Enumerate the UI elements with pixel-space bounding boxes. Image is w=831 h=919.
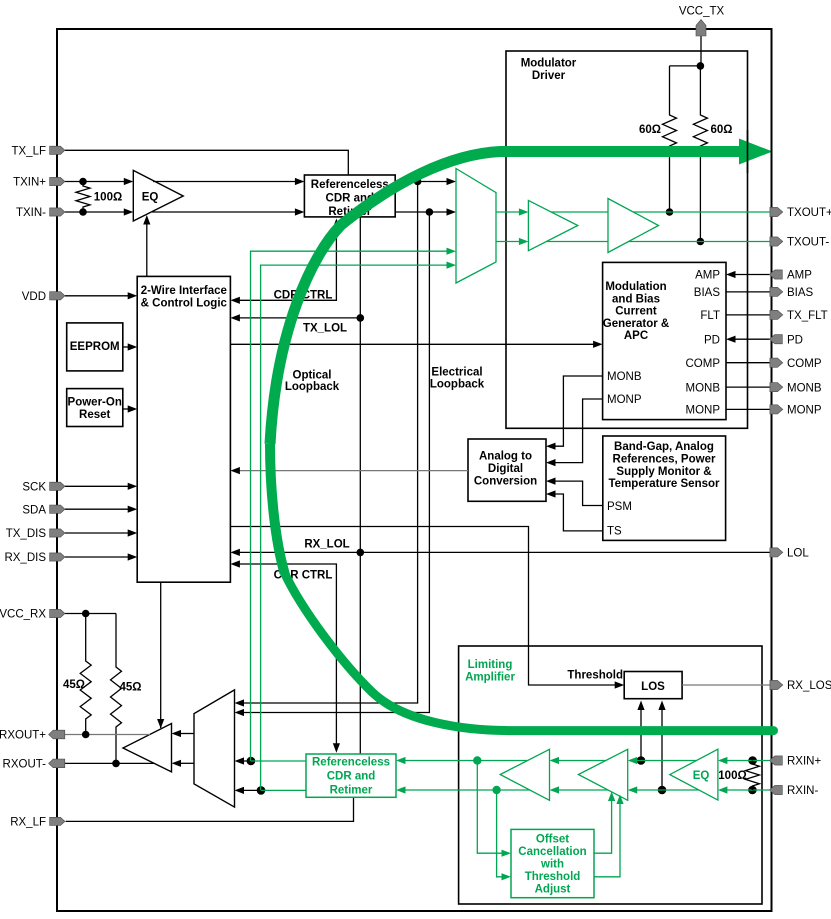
pin RXOUT- [49, 759, 65, 768]
node RX_LOL junction [357, 549, 365, 557]
node TXOUT- 60ohm join [697, 238, 705, 246]
pin TX_FLT [770, 310, 783, 319]
svg-text:Loopback: Loopback [285, 381, 340, 393]
svg-text:Digital: Digital [488, 463, 523, 475]
svg-text:Amplifier: Amplifier [465, 672, 515, 684]
wire RX_LF to RX CDR [66, 797, 354, 821]
wire Threshold from 2-wire to LOS [230, 527, 617, 686]
arrow left into 2-wire RX CDR_CTRL [230, 560, 240, 567]
svg-text:with: with [540, 859, 564, 871]
wire 60ohm branch top [670, 65, 701, 67]
arrow into RX EQ - [718, 786, 728, 793]
arrow right into 2-wire from SDA [128, 506, 138, 513]
arrow into RX amp1 + [550, 757, 560, 764]
TX driver amp 1 triangle [528, 200, 577, 250]
chip border over arrowhead [771, 130, 773, 173]
svg-text:Limiting: Limiting [468, 659, 513, 671]
svg-text:VDD: VDD [22, 291, 46, 303]
svg-text:MONP: MONP [607, 394, 642, 406]
svg-text:Cancellation: Cancellation [518, 846, 586, 858]
svg-text:Analog to: Analog to [479, 451, 532, 463]
node TXIN- termination [79, 208, 87, 216]
arrow into TX amp1 + [519, 208, 529, 215]
pin LOL [770, 548, 783, 557]
arrow into RX amp2 + [628, 757, 638, 764]
wire TX_LOL / RX_LOL vertical [359, 217, 361, 754]
pin TXIN- [50, 208, 65, 216]
pin SCK [50, 482, 65, 490]
arrow right into 2-wire from TX_DIS [128, 529, 138, 536]
wire TX mux out- [496, 241, 522, 243]
arrow left into 2-wire TX_LOL [230, 314, 240, 321]
wire COMP to pin [726, 362, 770, 364]
svg-text:Generator &: Generator & [603, 318, 669, 330]
svg-text:RX_LOS: RX_LOS [787, 680, 831, 692]
pin PD [769, 335, 782, 344]
Power-On Reset block [67, 389, 123, 427]
node RXIN+ termination [748, 756, 757, 765]
svg-text:100Ω: 100Ω [94, 192, 122, 204]
wire TX_DIS to 2-wire [65, 532, 130, 534]
wire MONP to pin [726, 408, 770, 410]
pin TX_DIS [50, 529, 65, 537]
svg-text:RX_DIS: RX_DIS [4, 552, 46, 564]
svg-text:Loopback: Loopback [430, 379, 485, 391]
svg-text:TX_DIS: TX_DIS [6, 528, 47, 540]
svg-text:AMP: AMP [695, 270, 720, 282]
wire RX CDR_CTRL [237, 564, 336, 747]
wire EQ gain control from 2-wire box [146, 222, 148, 276]
arrow into RX CDR + [396, 757, 406, 764]
wire electrical loopback - [241, 212, 429, 713]
arrow up into amp2 offset 2 [616, 795, 623, 805]
wire BIAS to pin [726, 291, 770, 293]
arrow left into RX mux from RX CDR - [235, 787, 245, 794]
pin VDD [50, 292, 65, 300]
wire optical loopback - [261, 265, 449, 790]
wire RX CDR to mux + [241, 760, 251, 762]
pin AMP [769, 270, 782, 279]
svg-text:100Ω: 100Ω [718, 770, 746, 782]
svg-text:Adjust: Adjust [535, 884, 571, 896]
pin RX_LF [50, 817, 65, 825]
svg-text:Power-On: Power-On [68, 396, 122, 408]
Modulation and Bias Current Generator and APC block [603, 262, 726, 419]
wire EQ to amp2 - [634, 789, 699, 791]
wire ADC to 2-wire [237, 470, 468, 472]
arrow into EQ from TXIN+ [124, 178, 134, 185]
wire optical loopback + [251, 251, 450, 761]
Band-Gap Analog References Power Supply Monitor and Temperature Sensor block [603, 436, 726, 540]
arrow up into amp2 offset 1 [608, 792, 615, 802]
TX driver amp 2 triangle [608, 199, 659, 253]
arrow left into 2-wire CDR_CTRL [230, 297, 240, 304]
wire TXOUT+ line [633, 211, 770, 213]
TX Referenceless CDR and Retimer block [304, 175, 395, 217]
wire TX CDR out+ to TX mux [395, 181, 449, 183]
pin RXIN- [769, 785, 782, 794]
wire 2-wire to Modulation block [230, 343, 596, 345]
arrow right into LOS Threshold [615, 681, 625, 688]
svg-text:Threshold: Threshold [567, 669, 623, 681]
arrow left into 2-wire from ADC [230, 467, 240, 474]
svg-text:and Bias: and Bias [612, 293, 660, 305]
wire MONB to pin [726, 386, 770, 388]
wire RX_LOL horizontal to LOL pin [237, 551, 770, 553]
svg-text:PD: PD [787, 334, 803, 346]
pin SDA [50, 505, 65, 513]
svg-text:2-Wire Interface: 2-Wire Interface [141, 285, 227, 297]
pin COMP [770, 358, 783, 367]
wire PSM to ADC [553, 481, 603, 505]
svg-text:45Ω: 45Ω [119, 682, 141, 694]
arrow up into EQ control [143, 215, 150, 225]
svg-text:RX_LOL: RX_LOL [304, 538, 349, 550]
node offset tap + [473, 756, 481, 764]
wire VCC_RX [65, 613, 116, 615]
arrow right into 2-wire from EEPROM [128, 343, 138, 350]
svg-text:COMP: COMP [787, 358, 822, 370]
svg-text:Offset: Offset [536, 834, 569, 846]
node TXIN+ termination [79, 178, 87, 186]
wire TX amp1 to amp2 + [551, 211, 608, 213]
wire AMP pin to Modulation block [733, 274, 770, 276]
wire TS to ADC [553, 494, 603, 531]
svg-text:Referenceless: Referenceless [312, 757, 390, 769]
node VCC_TX 60ohm split [697, 62, 705, 70]
resistor R6 100ohm RXIN termination [745, 761, 759, 791]
svg-text:Modulator: Modulator [521, 58, 577, 70]
wire RXIN- to EQ [725, 789, 770, 791]
Analog to Digital Conversion block [468, 439, 546, 501]
optical loopback swoosh lower mid [270, 444, 285, 573]
pin MONP [770, 405, 783, 414]
wire MONP to ADC [553, 399, 603, 463]
arrow right into 2-wire from RX_DIS [128, 553, 138, 560]
wire RX CDR to mux - (left part) [241, 789, 261, 791]
pin RX_DIS [50, 553, 65, 561]
RX limiting amp 1 triangle [500, 749, 549, 800]
EEPROM block [67, 323, 123, 371]
svg-text:COMP: COMP [686, 358, 721, 370]
TX mux trapezoid [456, 169, 496, 284]
wire 2-wire bottom to RX buffer [160, 582, 162, 728]
Modulator Driver right edge over arrowhead [747, 130, 749, 173]
node offset tap - [492, 786, 500, 794]
svg-text:Referenceless: Referenceless [311, 179, 389, 191]
optical loopback swoosh upper [270, 152, 741, 445]
node RXIN- termination [748, 786, 757, 795]
LOS block [624, 672, 682, 699]
svg-text:60Ω: 60Ω [710, 124, 732, 136]
pin TXIN+ [50, 177, 65, 185]
wire TX_LF pin to TX CDR top [65, 150, 348, 175]
svg-text:MONP: MONP [686, 405, 721, 417]
svg-text:Supply Monitor &: Supply Monitor & [616, 466, 711, 478]
svg-text:Driver: Driver [532, 70, 566, 82]
svg-text:EEPROM: EEPROM [70, 341, 120, 353]
arrow left into ADC 3 [546, 478, 556, 485]
arrow left into RX mux el-loopback - [235, 709, 245, 716]
pin RXOUT+ [49, 730, 65, 739]
svg-text:60Ω: 60Ω [639, 124, 661, 136]
wire EQ to amp2 + [634, 760, 696, 762]
resistor R1 100ohm TXIN termination [76, 182, 90, 213]
wire PD pin to Modulation block [733, 338, 770, 340]
wire RX mux to buffer - [178, 762, 194, 764]
wire amp2 to amp1 + [556, 760, 606, 762]
arrow left into RX mux from RX CDR + [235, 757, 245, 764]
pin RX_LOS [770, 680, 783, 689]
arrow up into TX CDR CDR_CTRL [333, 219, 340, 229]
wire TX CDR out- to TX mux [395, 211, 449, 213]
wire RX CDR out+ green part [251, 760, 306, 762]
wire offset cancellation out 2 [594, 801, 620, 877]
wire offset cancellation in 2 [497, 790, 505, 877]
svg-text:TX_FLT: TX_FLT [787, 310, 828, 322]
wire TXOUT- line [629, 241, 770, 243]
wire Power-On Reset to 2-wire [123, 408, 130, 410]
arrow left into ADC 4 [546, 490, 556, 497]
svg-text:APC: APC [624, 330, 648, 342]
svg-text:Electrical: Electrical [431, 367, 482, 379]
node TX CDR out+ loopback tap [414, 178, 422, 186]
arrow down into RX buffer control [157, 719, 164, 729]
svg-text:References, Power: References, Power [613, 453, 716, 465]
arrow left into RX mux el-loopback + [235, 699, 245, 706]
wire RX mux to buffer + [178, 733, 194, 735]
arrow into TX mux optical - [447, 262, 457, 269]
arrow into RX amp2 - [628, 786, 638, 793]
svg-text:Band-Gap, Analog: Band-Gap, Analog [614, 441, 714, 453]
svg-text:FLT: FLT [700, 310, 720, 322]
svg-text:RXOUT-: RXOUT- [3, 759, 47, 771]
svg-text:LOS: LOS [641, 681, 665, 693]
node RXOUT+ 45ohm join [82, 731, 90, 739]
Offset Cancellation block [511, 829, 594, 897]
svg-text:TX_LOL: TX_LOL [303, 323, 347, 335]
2-Wire Interface and Control Logic block U1 [137, 276, 230, 582]
pin BIAS [770, 287, 783, 296]
wire SCK to 2-wire [65, 485, 130, 487]
wire RX CDR out- green part [261, 789, 306, 791]
node LOS tap1 junction [637, 756, 646, 765]
arrow right into 2-wire from VDD [128, 292, 138, 299]
arrow into TX CDR in+ [295, 178, 305, 185]
RX mux trapezoid [194, 690, 235, 807]
pin TXOUT- [770, 237, 783, 246]
svg-text:RX_LF: RX_LF [10, 817, 46, 829]
wire RXOUT+ [65, 734, 150, 736]
arrow into TX mux optical + [447, 248, 457, 255]
arrow left into RX buffer + [172, 730, 182, 737]
arrow into offset box 2 [502, 873, 512, 880]
arrow into TX amp1 - [519, 238, 529, 245]
wire TXIN+ to EQ [65, 181, 126, 183]
node LOS tap2 junction [658, 786, 667, 795]
optical loopback swoosh lower [285, 573, 774, 731]
Modulator Driver block [506, 51, 748, 428]
arrow right into 2-wire from SCK [128, 483, 138, 490]
wire SDA to 2-wire [65, 508, 130, 510]
svg-text:AMP: AMP [787, 270, 812, 282]
svg-text:Reset: Reset [79, 409, 110, 421]
pin TX_LF [50, 146, 65, 154]
RX EQ triangle [670, 749, 718, 800]
wire MONB to ADC [553, 376, 603, 446]
svg-text:MONB: MONB [607, 371, 642, 383]
wire RX_DIS to 2-wire [65, 556, 130, 558]
svg-text:Current: Current [615, 306, 657, 318]
optical loopback swoosh arrowhead [739, 139, 773, 165]
node RX mux in- optical tap [257, 786, 266, 795]
arrow left into Modulation AMP [726, 271, 736, 278]
svg-text:& Control Logic: & Control Logic [141, 298, 228, 310]
svg-text:RXIN-: RXIN- [787, 785, 818, 797]
node VCC_RX 45ohm split [82, 610, 90, 618]
svg-text:Retimer: Retimer [330, 785, 373, 797]
arrow left into Modulation PD [726, 336, 736, 343]
arrow into TX CDR in- [295, 208, 305, 215]
wire EQ out- to TX CDR [152, 211, 297, 213]
svg-text:TXIN-: TXIN- [16, 207, 46, 219]
wire EEPROM to 2-wire [123, 346, 130, 348]
arrow into offset box 1 [502, 850, 512, 857]
RX Referenceless CDR and Retimer block [306, 754, 396, 797]
svg-text:EQ: EQ [142, 192, 159, 204]
wire FLT to TX_FLT pin [726, 314, 770, 316]
pin MONB [770, 383, 783, 392]
wire electrical loopback + [241, 182, 418, 704]
pin RXIN+ [769, 756, 782, 765]
arrow right into 2-wire from POR [128, 405, 138, 412]
wire LOS tap 2 [661, 705, 663, 790]
wire amp1 to RX CDR + [403, 760, 528, 762]
wire amp2 to amp1 - [556, 789, 608, 791]
arrow left into ADC 1 [546, 443, 556, 450]
pin VCC_RX [50, 609, 65, 617]
svg-text:SCK: SCK [22, 482, 46, 494]
svg-text:BIAS: BIAS [694, 287, 721, 299]
arrow down into RX CDR CDR_CTRL [333, 743, 340, 753]
svg-text:TXOUT-: TXOUT- [787, 237, 829, 249]
Limiting Amplifier block [459, 646, 762, 904]
resistor R3 60ohm right [693, 66, 707, 242]
wire TX_LOL horizontal [237, 317, 360, 319]
wire offset cancellation in 1 [477, 761, 504, 854]
arrow into RX EQ + [718, 757, 728, 764]
svg-text:PSM: PSM [607, 501, 632, 513]
node RXOUT- 45ohm join [112, 760, 120, 768]
arrow into EQ from TXIN- [124, 208, 134, 215]
arrow up into LOS tap2 [658, 701, 665, 711]
node RX mux in+ optical tap [247, 757, 256, 766]
wire EQ out+ to TX CDR [153, 181, 297, 183]
wire LOS to RX_LOS pin [682, 684, 770, 686]
svg-text:TXIN+: TXIN+ [13, 177, 46, 189]
arrow into TX mux in- [447, 208, 457, 215]
svg-text:TS: TS [607, 526, 622, 538]
arrow into RX CDR - [396, 786, 406, 793]
svg-text:TX_LF: TX_LF [11, 146, 46, 158]
svg-text:Temperature Sensor: Temperature Sensor [609, 478, 721, 490]
pin TXOUT+ [770, 207, 783, 216]
svg-text:RXIN+: RXIN+ [787, 756, 821, 768]
svg-text:MONB: MONB [787, 382, 822, 394]
TX EQ triangle [133, 170, 183, 221]
wire LOS tap 1 [640, 705, 642, 761]
wire TX CDR_CTRL [237, 223, 336, 300]
svg-text:MONP: MONP [787, 405, 822, 417]
arrow left into 2-wire RX_LOL [230, 549, 240, 556]
wire VCC_TX down [700, 36, 702, 66]
svg-text:MONB: MONB [686, 382, 721, 394]
wire TXIN- to EQ [65, 211, 126, 213]
wire TX mux out+ [496, 211, 522, 213]
wire RXOUT- [65, 762, 154, 764]
node TXOUT+ 60ohm join [666, 208, 674, 216]
pin VCC_TX [696, 20, 706, 37]
arrow into RX amp1 - [550, 786, 560, 793]
wire TX amp1 to amp2 - [546, 241, 608, 243]
arrow left into ADC 2 [546, 459, 556, 466]
wire RXIN+ to EQ [725, 760, 770, 762]
wire amp1 to RX CDR - [403, 789, 530, 791]
resistor R2 60ohm left [663, 66, 677, 212]
svg-text:RXOUT+: RXOUT+ [0, 730, 46, 742]
svg-text:VCC_RX: VCC_RX [0, 609, 46, 621]
svg-text:SDA: SDA [22, 504, 46, 516]
RX limiting amp 2 triangle [578, 749, 627, 800]
svg-text:45Ω: 45Ω [63, 679, 85, 691]
svg-text:TXOUT+: TXOUT+ [787, 207, 831, 219]
node TX CDR out- loopback tap [426, 208, 434, 216]
svg-text:Conversion: Conversion [474, 476, 537, 488]
svg-text:EQ: EQ [693, 770, 710, 782]
svg-text:VCC_TX: VCC_TX [679, 6, 725, 18]
arrow right into Modulation from 2-wire [593, 341, 603, 348]
wire VDD to 2-wire [65, 295, 130, 297]
resistor R5 45ohm right [111, 614, 122, 764]
arrow into TX mux in+ [447, 178, 457, 185]
wire offset cancellation out 1 [594, 798, 612, 853]
svg-text:CDR and: CDR and [327, 771, 376, 783]
svg-text:Modulation: Modulation [605, 281, 666, 293]
svg-text:PD: PD [704, 334, 720, 346]
svg-text:Threshold: Threshold [525, 871, 581, 883]
arrow up into LOS tap1 [637, 701, 644, 711]
svg-text:Optical: Optical [293, 370, 332, 382]
resistor R4 45ohm left [80, 614, 91, 735]
RX output buffer triangle [123, 724, 172, 772]
arrow left into RX buffer - [172, 760, 182, 767]
svg-text:BIAS: BIAS [787, 287, 814, 299]
node TX_LOL junction [357, 314, 365, 322]
svg-text:LOL: LOL [787, 548, 809, 560]
